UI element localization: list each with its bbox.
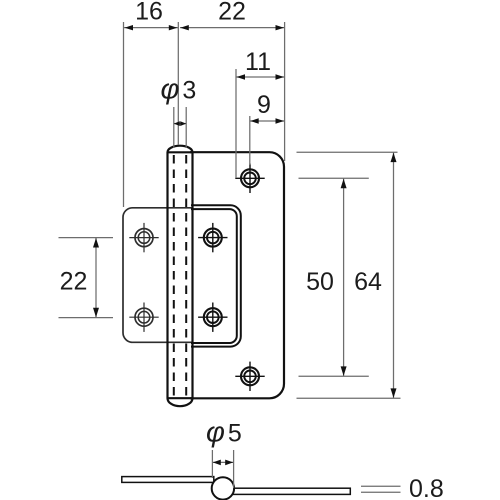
svg-text:φ5: φ5 [206,416,242,448]
hole left-bottom [129,303,158,332]
hole right-top [235,164,264,193]
hole right-bottom [235,362,264,391]
dim 11 line [236,76,285,78]
pin hidden line left [173,155,175,399]
side view right plate bar [226,488,350,494]
dim 22 left extension bottom [59,317,114,319]
svg-text:64: 64 [354,268,382,296]
pin bottom chord [168,397,193,399]
dim 22 extension line right edge [284,22,286,161]
dim 16 extension line left [123,22,125,207]
dim phi5 line [212,461,233,463]
svg-text:9: 9 [257,91,271,119]
dim 64 line [393,152,395,398]
dim 9 line [250,120,285,122]
pin hidden line right [185,155,187,399]
dim 50 extension top [299,177,369,179]
thickness leader line bottom [361,491,401,493]
dim 50 line [343,178,345,376]
dim 64 extension bottom [297,397,401,399]
svg-text:φ3: φ3 [161,74,197,106]
main leaf plate [190,152,284,398]
side view barrel circle [212,477,234,499]
dim 22 left extension top [59,237,114,239]
side view left plate bar [122,477,214,483]
dim 50 extension bottom [299,375,369,377]
dim phi3 extension left [173,107,175,148]
flap inner outline [191,209,237,343]
thickness leader line top [361,485,401,487]
dim phi3 line [174,123,186,125]
svg-text:22: 22 [218,0,246,26]
svg-text:22: 22 [60,268,88,296]
dim 11 extension line [235,69,237,178]
pin top chord [168,151,193,153]
dim phi3 extension right [185,107,187,148]
dim 9 extension line [249,116,251,165]
svg-text:11: 11 [245,48,271,76]
dim phi5 extension right [233,450,235,488]
svg-text:50: 50 [306,268,334,296]
left leaf plate [123,208,192,342]
dim phi5 extension left [211,450,213,478]
hole mid-top [198,223,227,252]
hinge pin barrel [168,146,193,407]
flap outer outline [191,205,241,346]
dim 16 line [124,27,179,29]
dim extension pin centerline [177,22,179,145]
dim 22 left line [95,238,97,318]
dim 22 line top [180,27,285,29]
svg-text:0.8: 0.8 [409,475,444,500]
hole mid-bottom [198,303,227,332]
dim 64 extension top [297,151,398,153]
svg-text:16: 16 [135,0,163,26]
hole left-top [129,223,158,252]
